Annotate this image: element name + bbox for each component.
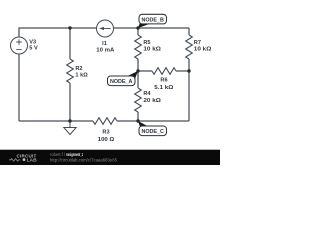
- junction dot R6-R7: [187, 69, 190, 72]
- wire bottom rail right: [117, 120, 189, 122]
- svg-text:5 V: 5 V: [29, 46, 38, 52]
- svg-text:R3: R3: [102, 130, 109, 136]
- junction dot node C: [136, 119, 139, 122]
- node NODE_C flag: [138, 121, 167, 136]
- R4 labels: [143, 91, 161, 104]
- svg-text:NODE_C: NODE_C: [141, 129, 164, 135]
- svg-text:5.1 kΩ: 5.1 kΩ: [154, 85, 174, 91]
- R7 labels: [194, 40, 212, 53]
- svg-text:20 kΩ: 20 kΩ: [143, 98, 161, 104]
- junction dot node A: [136, 69, 139, 72]
- svg-text:10 mA: 10 mA: [96, 48, 114, 54]
- resistor R3: [93, 118, 117, 125]
- svg-text:R5: R5: [143, 40, 150, 46]
- svg-text:I1: I1: [102, 41, 107, 47]
- R6 labels: [154, 78, 174, 91]
- wire R2 branch: [69, 28, 71, 121]
- svg-text:R6: R6: [160, 78, 167, 84]
- svg-text:LAB: LAB: [27, 157, 37, 162]
- resistor R6: [152, 68, 176, 75]
- svg-text:Assignment_1: Assignment_1: [66, 152, 83, 157]
- wire R6 row: [138, 70, 189, 72]
- R5 labels: [143, 40, 161, 53]
- I1 labels: [96, 41, 114, 54]
- footer CircuitLab logo: [9, 154, 37, 163]
- current source I1: [97, 20, 114, 37]
- wire left from V3 down to bottom rail: [18, 54, 20, 121]
- junction dot top R2: [68, 26, 71, 29]
- node NODE_B flag: [138, 14, 167, 28]
- resistor R2: [67, 59, 74, 83]
- resistor R7: [186, 35, 193, 59]
- svg-text:1 kΩ: 1 kΩ: [75, 73, 88, 79]
- svg-text:R7: R7: [194, 40, 201, 46]
- wire bottom rail left: [19, 120, 93, 122]
- V3 labels: [29, 40, 38, 52]
- R2 labels: [75, 66, 88, 79]
- wire top from V3 to I1: [19, 28, 97, 37]
- svg-text:R4: R4: [143, 91, 151, 97]
- junction dot node B: [136, 26, 139, 29]
- svg-text:10 kΩ: 10 kΩ: [143, 47, 161, 53]
- footer info text: [50, 152, 118, 162]
- svg-text:robert.f /: robert.f /: [50, 152, 66, 157]
- svg-text:NODE_A: NODE_A: [110, 79, 133, 85]
- svg-text:NODE_B: NODE_B: [141, 18, 164, 24]
- node NODE_A flag: [108, 71, 139, 86]
- junction dot ground: [68, 119, 71, 122]
- svg-text:http://circuitlab.com/c/7caaa6: http://circuitlab.com/c/7caaa683e65: [50, 157, 118, 162]
- wire top from I1 to R7: [114, 27, 190, 29]
- wire R5 R4 branch: [137, 28, 139, 121]
- resistor R5: [135, 35, 142, 59]
- svg-text:10 kΩ: 10 kΩ: [194, 47, 212, 53]
- resistor R4: [135, 88, 142, 112]
- footer bar: [0, 150, 220, 165]
- voltage source V3: [11, 37, 28, 54]
- svg-text:100 Ω: 100 Ω: [98, 137, 115, 143]
- R3 labels: [98, 130, 115, 144]
- svg-text:R2: R2: [75, 66, 82, 72]
- wire R7 branch right: [188, 28, 190, 121]
- ground: [64, 121, 76, 135]
